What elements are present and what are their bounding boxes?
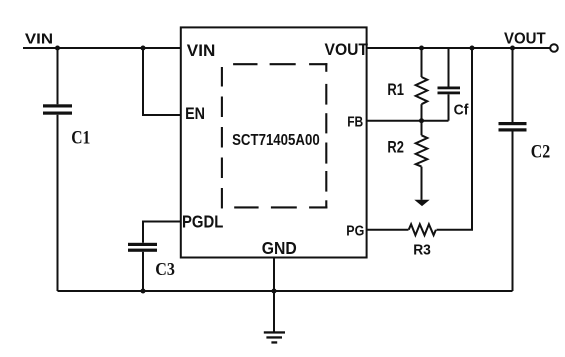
wire GND pin lead <box>273 258 275 333</box>
dashed inner block <box>222 63 327 208</box>
junction VIN/EN <box>141 46 146 51</box>
svg-text:R1: R1 <box>387 80 404 99</box>
svg-text:VOUT: VOUT <box>325 40 369 59</box>
ground arrow (R2 return) <box>414 200 429 206</box>
capacitor C2 <box>499 48 527 291</box>
svg-text:EN: EN <box>185 105 205 123</box>
wire VOUT rail <box>366 47 551 49</box>
wire EN branch <box>143 48 180 115</box>
terminal VOUT <box>550 44 558 52</box>
svg-text:PG: PG <box>346 224 364 240</box>
resistor R2 <box>416 121 428 200</box>
junction GND/rail <box>272 289 277 294</box>
resistor R1 <box>416 48 428 121</box>
svg-text:GND: GND <box>262 239 297 258</box>
junction C3/ground rail <box>141 289 146 294</box>
svg-text:C3: C3 <box>155 259 175 279</box>
capacitor Cf <box>438 48 461 121</box>
junction VOUT/C2 <box>510 46 515 51</box>
wire PG <box>366 229 409 231</box>
svg-text:VIN: VIN <box>25 31 53 47</box>
junction VIN/C1 <box>55 46 60 51</box>
junction VOUT/R3 branch <box>470 46 475 51</box>
svg-text:R2: R2 <box>387 139 404 157</box>
junction VOUT/R1 <box>419 46 424 51</box>
svg-text:VOUT: VOUT <box>504 31 546 48</box>
IC U1 SCT71405A00 <box>181 27 367 257</box>
svg-text:C1: C1 <box>71 128 90 149</box>
svg-text:VIN: VIN <box>187 41 216 60</box>
svg-text:SCT71405A00: SCT71405A00 <box>232 132 320 149</box>
svg-text:FB: FB <box>347 115 363 131</box>
wire bottom ground rail <box>58 290 513 292</box>
wire R3 to VOUT <box>437 48 473 230</box>
wire FB <box>366 120 449 122</box>
wire PGDL branch <box>143 222 180 243</box>
svg-text:R3: R3 <box>413 242 431 259</box>
capacitor C3 <box>128 243 157 291</box>
ground <box>264 331 285 343</box>
wire VIN rail <box>23 47 180 49</box>
svg-text:C2: C2 <box>531 142 550 163</box>
junction FB/R1/R2 <box>419 118 424 123</box>
resistor R3 <box>409 224 436 235</box>
capacitor C1 <box>43 48 72 291</box>
svg-text:Cf: Cf <box>454 103 469 119</box>
svg-text:PGDL: PGDL <box>182 212 224 232</box>
